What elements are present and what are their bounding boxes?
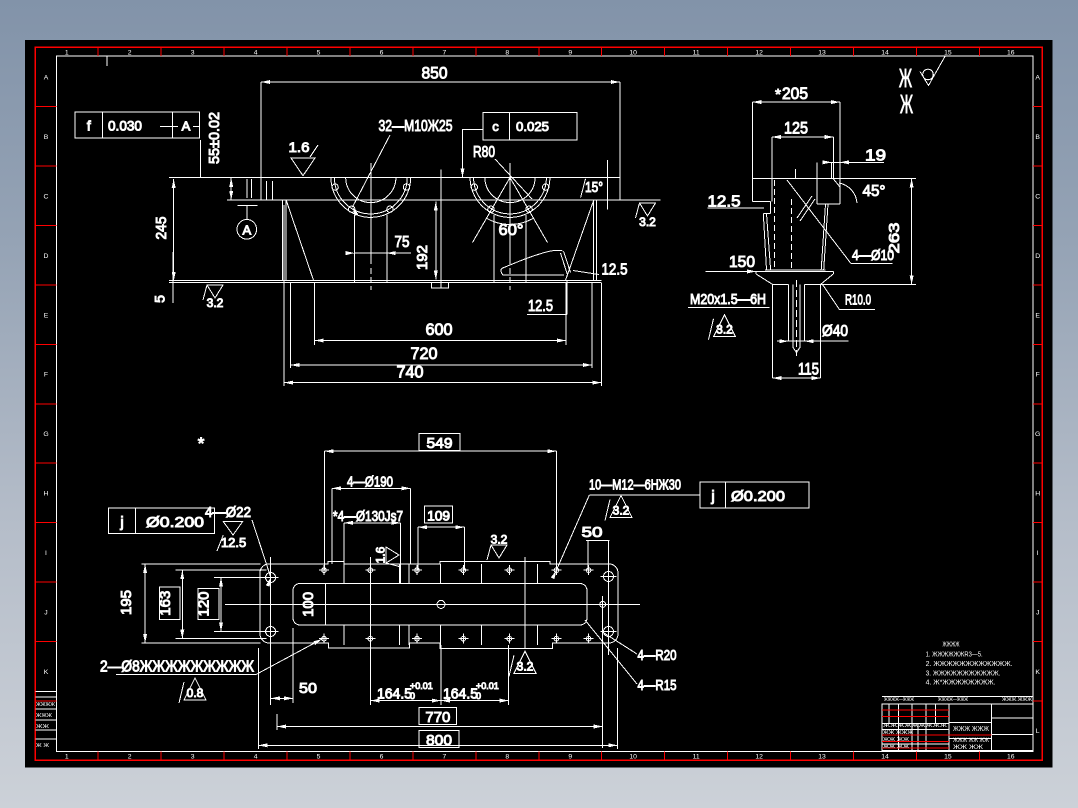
svg-text:3.2: 3.2 — [716, 323, 733, 337]
svg-text:13: 13 — [818, 753, 826, 760]
svg-text:6: 6 — [380, 753, 384, 760]
svg-text:205: 205 — [782, 84, 808, 103]
side view: right wall — [824, 204, 828, 270]
svg-text:A: A — [242, 222, 251, 237]
svg-text:ЖЖЖ ЖЖ ЖЖ: ЖЖЖ ЖЖ ЖЖ — [953, 738, 989, 744]
svg-text:720: 720 — [411, 344, 438, 363]
svg-text:A: A — [182, 119, 191, 134]
position frame c 0.025 — [483, 113, 577, 141]
svg-text:Ø40: Ø40 — [822, 323, 848, 340]
plan view: strip verticals — [343, 564, 345, 584]
front view: left bore bolt holes — [332, 184, 338, 190]
svg-text:C: C — [44, 193, 49, 200]
plan view: bore centerline vertical — [370, 557, 372, 705]
svg-text:5: 5 — [317, 753, 321, 760]
dim 75 — [355, 252, 411, 254]
dim 549 — [419, 434, 460, 451]
svg-text:850: 850 — [422, 64, 448, 83]
dim 770 — [419, 708, 457, 725]
svg-text:5: 5 — [317, 49, 321, 56]
svg-text:12: 12 — [755, 753, 763, 760]
svg-text:0: 0 — [410, 691, 415, 701]
front view: left bore centerline — [370, 163, 372, 264]
roughness 1.6 front — [291, 158, 315, 176]
svg-text:j: j — [119, 514, 123, 531]
svg-text:G: G — [43, 431, 48, 438]
svg-text:ЖЖЖ.ЖЖЖ: ЖЖЖ.ЖЖЖ — [1002, 697, 1032, 703]
svg-text:13: 13 — [818, 49, 826, 56]
svg-text:C: C — [1035, 193, 1040, 200]
svg-text:E: E — [44, 312, 49, 319]
svg-text:ЖЖЖЖ—ЖЖЖ: ЖЖЖЖ—ЖЖЖ — [884, 697, 914, 703]
svg-text:1.6: 1.6 — [289, 139, 310, 155]
front view: right bore arcs — [485, 178, 535, 203]
svg-text:Ø0.200: Ø0.200 — [731, 488, 785, 505]
svg-text:45°: 45° — [863, 183, 886, 200]
svg-text:I: I — [1037, 550, 1039, 557]
svg-text:8: 8 — [505, 49, 509, 56]
svg-text:L: L — [1036, 728, 1040, 735]
svg-text:164.5: 164.5 — [443, 686, 478, 703]
svg-text:4: 4 — [254, 49, 258, 56]
svg-text:A: A — [1035, 75, 1040, 82]
svg-text:192: 192 — [414, 245, 431, 270]
svg-text:150: 150 — [729, 254, 755, 271]
svg-text:55±0.02: 55±0.02 — [206, 112, 223, 164]
dim 163 — [176, 569, 267, 571]
svg-text:1: 1 — [65, 49, 69, 56]
svg-text:9: 9 — [568, 753, 572, 760]
dim 50 top right — [586, 540, 610, 542]
front view: left wall — [281, 200, 283, 281]
svg-text:75: 75 — [395, 234, 410, 251]
plan view: corner holes — [266, 573, 276, 583]
title block white horizontals — [882, 723, 949, 725]
dim 205 — [751, 102, 753, 178]
svg-text:770: 770 — [425, 709, 450, 726]
dim phi40 — [777, 340, 848, 342]
svg-text:60°: 60° — [499, 222, 524, 239]
bottom left rider block — [36, 690, 57, 692]
svg-text:5: 5 — [152, 295, 168, 303]
white inner drawing frame — [57, 56, 1034, 751]
svg-text:4: 4 — [254, 753, 258, 760]
svg-text:12.5: 12.5 — [528, 298, 553, 315]
dim 263 — [840, 178, 916, 180]
svg-text:7: 7 — [443, 49, 447, 56]
svg-text:D: D — [44, 253, 49, 260]
svg-text:J: J — [1036, 609, 1039, 616]
svg-text:0.030: 0.030 — [108, 118, 142, 134]
svg-text:12: 12 — [755, 49, 763, 56]
svg-text:F: F — [44, 372, 48, 379]
svg-text:F: F — [1036, 372, 1040, 379]
front view: left bore arcs — [346, 178, 396, 203]
svg-text:15: 15 — [944, 49, 952, 56]
svg-text:4—R20: 4—R20 — [638, 647, 677, 664]
plan view: cavity — [293, 584, 587, 626]
svg-text:3: 3 — [191, 49, 195, 56]
svg-text:I: I — [45, 550, 47, 557]
front view: inner wall slants — [286, 200, 313, 280]
svg-text:7: 7 — [443, 753, 447, 760]
front view: right bore bolt holes — [471, 184, 477, 190]
svg-text:11: 11 — [693, 753, 700, 760]
dims 164.5 — [440, 645, 442, 705]
centering tick top — [106, 56, 108, 66]
svg-text:+0.01: +0.01 — [476, 681, 499, 691]
front view: right bore centerline — [509, 163, 511, 264]
svg-text:R80: R80 — [473, 144, 495, 161]
front view: flange end verticals — [260, 82, 262, 200]
side view: left wall — [763, 213, 766, 269]
dim 245 — [173, 179, 175, 281]
svg-text:9: 9 — [568, 49, 572, 56]
roughness 3.2 right flange — [640, 203, 656, 216]
svg-text:12.5: 12.5 — [602, 262, 628, 279]
flatness frame f 0.030 A — [75, 112, 199, 138]
dim 50 bottom — [292, 628, 294, 703]
title block verticals — [897, 704, 899, 751]
svg-text:4—Ø22: 4—Ø22 — [205, 504, 251, 521]
svg-text:E: E — [1035, 312, 1040, 319]
svg-text:K: K — [44, 669, 49, 676]
svg-text:ЖЖ ЖЖЖ: ЖЖ ЖЖЖ — [883, 730, 913, 736]
roughness 12.5 plan — [223, 522, 242, 535]
svg-text:ЖЖ ЖЖ: ЖЖ ЖЖ — [883, 744, 909, 750]
svg-text:1. ЖЖЖЖЖЖR3—5.: 1. ЖЖЖЖЖЖR3—5. — [926, 652, 983, 659]
roughness 3.2 under M12 note — [610, 496, 632, 518]
front view: mid extension vertical — [440, 170, 442, 289]
roughness 3.2 left base — [207, 285, 223, 298]
svg-text:1.6: 1.6 — [374, 546, 388, 563]
svg-text:0.8: 0.8 — [187, 686, 204, 700]
dim 800 — [419, 731, 459, 748]
svg-text:ЖЖЖЖ—ЖЖЖ: ЖЖЖЖ—ЖЖЖ — [938, 697, 968, 703]
side view: right block outline — [839, 179, 841, 205]
svg-text:8: 8 — [505, 753, 509, 760]
svg-text:120: 120 — [196, 592, 213, 617]
plan view: outer outline with bumps — [260, 561, 618, 648]
svg-text:15°: 15° — [585, 179, 603, 196]
plan view: bore line in cavity — [325, 584, 327, 625]
side view: left block outline — [751, 179, 753, 202]
svg-text:10: 10 — [629, 49, 637, 56]
svg-text:*: * — [775, 86, 781, 103]
dim 115 — [772, 377, 820, 379]
title block red lines — [882, 709, 949, 711]
side view: foot — [756, 270, 833, 272]
svg-text:j: j — [710, 488, 714, 505]
svg-text:195: 195 — [118, 590, 135, 615]
side view: cavity bottom — [765, 269, 825, 271]
svg-text:32—M10Ж25: 32—M10Ж25 — [379, 118, 453, 135]
svg-text:Ø0.200: Ø0.200 — [146, 514, 204, 531]
svg-text:3.2: 3.2 — [207, 296, 224, 310]
svg-text:B: B — [1035, 134, 1040, 141]
svg-text:163: 163 — [157, 591, 174, 616]
svg-text:D: D — [1035, 253, 1040, 260]
svg-text:15: 15 — [944, 753, 952, 760]
svg-text:f: f — [87, 118, 91, 134]
dim 740 — [283, 205, 285, 386]
dim 600 — [314, 283, 316, 345]
front view: flange top edge — [169, 177, 620, 179]
svg-text:2: 2 — [128, 753, 132, 760]
svg-text:R10.0: R10.0 — [845, 292, 871, 309]
dim 192 — [435, 202, 437, 280]
svg-text:3.2: 3.2 — [491, 533, 508, 547]
svg-text:B: B — [44, 134, 49, 141]
dim 150 — [705, 270, 756, 272]
frame j phi0.200 left — [108, 508, 214, 533]
dim 720 — [290, 283, 292, 368]
title block outer box — [882, 704, 1033, 751]
svg-text:14: 14 — [881, 753, 889, 760]
svg-text:10: 10 — [629, 753, 637, 760]
front view: right wall — [593, 200, 595, 281]
svg-text:H: H — [44, 491, 49, 498]
front view: drain notch — [432, 283, 449, 289]
roughness 0.8 — [184, 678, 206, 700]
front view: oil groove curves — [501, 250, 564, 274]
svg-text:J: J — [44, 609, 47, 616]
plan view: horizontal centerline — [225, 603, 640, 605]
frame j phi0.200 right — [700, 482, 809, 508]
svg-text:0: 0 — [476, 691, 481, 701]
roughness 3.2 plan top — [491, 545, 507, 558]
front view: right boss side walls — [493, 215, 495, 282]
front view: base plate lines — [169, 279, 602, 281]
svg-text:50: 50 — [582, 524, 603, 541]
svg-text:ЖЖЖ: ЖЖЖ — [36, 713, 52, 719]
side view: boss column / 115 extensions — [771, 284, 773, 378]
svg-text:125: 125 — [784, 119, 808, 138]
svg-text:Ж: Ж — [900, 89, 913, 119]
svg-text:263: 263 — [886, 223, 903, 254]
svg-text:16: 16 — [1007, 753, 1015, 760]
side view: 45 chamfer — [833, 179, 840, 188]
svg-text:ЖЖ ЖЖ: ЖЖ ЖЖ — [883, 737, 909, 743]
svg-text:109: 109 — [427, 508, 450, 524]
svg-text:1: 1 — [65, 753, 69, 760]
svg-text:245: 245 — [153, 217, 170, 240]
label R10.0 — [823, 285, 876, 310]
side view: M20 tapped hole — [787, 284, 789, 341]
svg-text:2: 2 — [128, 49, 132, 56]
label 12.5 lower — [566, 281, 568, 315]
svg-text:4. Ж*ЖЖЖЖЖЖЖЖ.: 4. Ж*ЖЖЖЖЖЖЖЖ. — [926, 680, 996, 687]
svg-text:c: c — [492, 119, 499, 134]
plan view: centre holes — [437, 600, 445, 608]
svg-text:164.5: 164.5 — [377, 686, 412, 703]
svg-text:3.2: 3.2 — [613, 504, 630, 518]
side view: top face — [752, 178, 840, 180]
svg-text:100: 100 — [300, 592, 317, 617]
dim 109 — [425, 506, 453, 523]
dim 850 — [261, 81, 620, 83]
svg-text:2—Ø8ЖЖЖЖЖЖЖЖЖ: 2—Ø8ЖЖЖЖЖЖЖЖЖ — [100, 659, 254, 676]
svg-text:G: G — [1035, 431, 1040, 438]
title block top line — [882, 696, 1033, 698]
svg-text:M20x1.5—6H: M20x1.5—6H — [690, 291, 766, 308]
svg-text:H: H — [1035, 491, 1040, 498]
roughness 3.2 plan bottom — [514, 651, 536, 673]
svg-text:14: 14 — [881, 49, 889, 56]
plan view: M12 holes — [322, 568, 327, 573]
dim 19 — [831, 162, 833, 178]
dim 195 — [142, 563, 261, 565]
svg-text:ЖЖЖЖ: ЖЖЖЖ — [36, 702, 55, 708]
svg-text:3. ЖЖЖЖЖЖЖЖЖЖЖ.: 3. ЖЖЖЖЖЖЖЖЖЖЖ. — [926, 671, 1001, 678]
svg-text:*: * — [198, 434, 205, 453]
svg-text:16: 16 — [1007, 49, 1015, 56]
dim 5 — [172, 252, 174, 303]
svg-text:50: 50 — [299, 680, 317, 697]
dim 55±0.02 — [230, 178, 232, 200]
roughness 1.6 plan rotated — [374, 546, 402, 567]
svg-text:0.025: 0.025 — [516, 119, 549, 134]
svg-text:740: 740 — [397, 363, 424, 382]
svg-text:12.5: 12.5 — [221, 535, 246, 550]
svg-text:2. ЖЖЖЖЖЖЖЖЖЖЖЖ.: 2. ЖЖЖЖЖЖЖЖЖЖЖЖ. — [926, 661, 1013, 668]
svg-text:549: 549 — [427, 435, 453, 452]
roughness 3.2 under M20 — [714, 315, 736, 337]
side view: hidden lines — [774, 180, 776, 268]
c frame leader — [462, 129, 483, 177]
svg-text:+0.01: +0.01 — [410, 681, 433, 691]
svg-text:11: 11 — [693, 49, 700, 56]
svg-text:10—M12—6HЖ30: 10—M12—6HЖ30 — [589, 477, 681, 494]
svg-text:A: A — [44, 75, 49, 82]
svg-text:600: 600 — [426, 320, 453, 339]
svg-text:ЖЖЖЖ: ЖЖЖЖ — [943, 642, 960, 649]
svg-text:3.2: 3.2 — [639, 215, 656, 229]
svg-text:3.2: 3.2 — [517, 659, 534, 673]
svg-text:ЖЖЖЖЖЖЖЖЖ: ЖЖЖЖЖЖЖЖЖ — [883, 723, 947, 729]
svg-text:3: 3 — [191, 753, 195, 760]
svg-text:ЖЖ: ЖЖ — [36, 724, 50, 730]
svg-text:K: K — [1035, 669, 1040, 676]
datum A target — [238, 205, 258, 207]
svg-text:Ж Ж: Ж Ж — [36, 743, 49, 749]
svg-text:6: 6 — [380, 49, 384, 56]
svg-text:19: 19 — [865, 148, 886, 165]
front view: left boss side walls — [354, 215, 356, 282]
front view: flange bottom edge — [227, 199, 661, 201]
front view: 60 degree wedge — [473, 178, 511, 243]
plan view: corner hole centerlines — [270, 557, 272, 705]
svg-text:ЖЖ ЖЖ: ЖЖ ЖЖ — [953, 745, 984, 751]
svg-text:115: 115 — [798, 360, 819, 379]
dim 120 — [214, 577, 266, 579]
svg-text:4—R15: 4—R15 — [638, 677, 677, 694]
svg-text:800: 800 — [426, 732, 452, 749]
svg-text:ЖЖЖ ЖЖЖ: ЖЖЖ ЖЖЖ — [953, 726, 989, 733]
dim 125 — [771, 137, 773, 202]
